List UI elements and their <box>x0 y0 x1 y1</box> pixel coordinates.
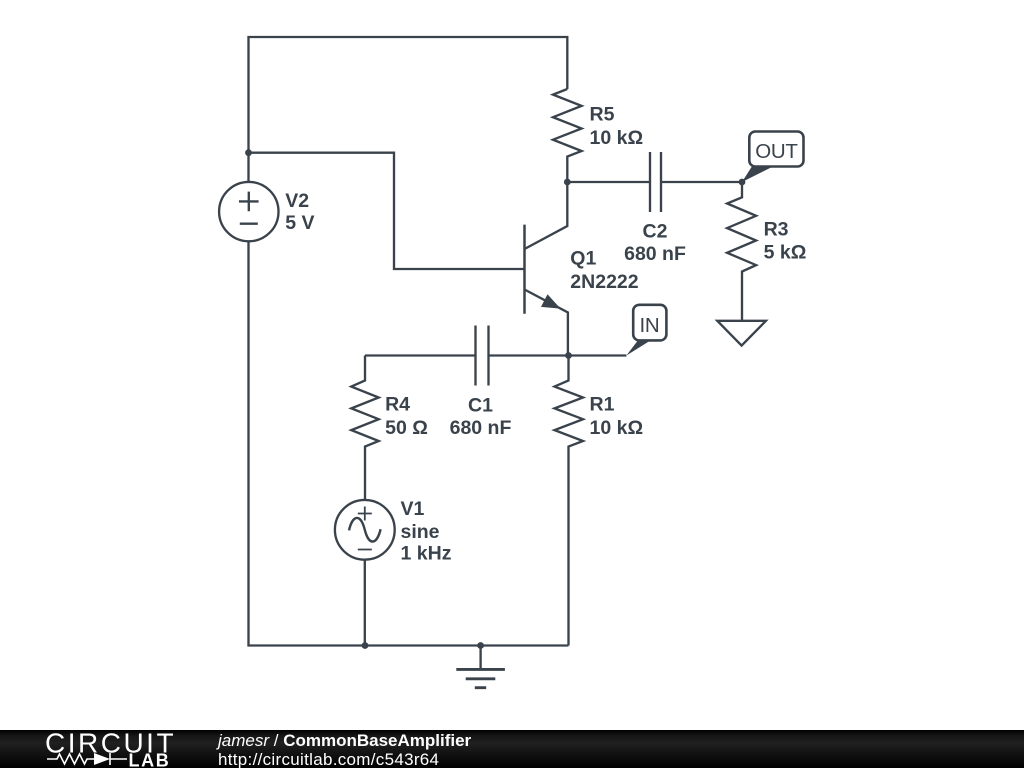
svg-text:LAB: LAB <box>129 751 171 768</box>
svg-text:R4: R4 <box>385 393 410 415</box>
svg-text:5 kΩ: 5 kΩ <box>764 242 807 264</box>
svg-text:R5: R5 <box>590 103 615 125</box>
svg-text:OUT: OUT <box>755 140 798 163</box>
svg-text:Q1: Q1 <box>570 247 596 269</box>
svg-text:10 kΩ: 10 kΩ <box>590 127 644 149</box>
svg-text:C1: C1 <box>468 394 493 416</box>
svg-text:V1: V1 <box>401 498 425 520</box>
svg-text:5 V: 5 V <box>285 212 314 234</box>
svg-text:IN: IN <box>639 314 659 337</box>
svg-text:C2: C2 <box>643 221 668 243</box>
svg-text:680 nF: 680 nF <box>450 417 512 439</box>
svg-text:R3: R3 <box>764 218 789 240</box>
svg-text:R1: R1 <box>590 393 615 415</box>
svg-text:sine: sine <box>401 521 440 543</box>
svg-text:1 kHz: 1 kHz <box>401 543 452 565</box>
svg-text:680 nF: 680 nF <box>624 243 686 265</box>
svg-text:10 kΩ: 10 kΩ <box>590 417 644 439</box>
svg-text:50 Ω: 50 Ω <box>385 417 428 439</box>
svg-text:2N2222: 2N2222 <box>570 271 638 293</box>
svg-text:V2: V2 <box>285 190 309 212</box>
